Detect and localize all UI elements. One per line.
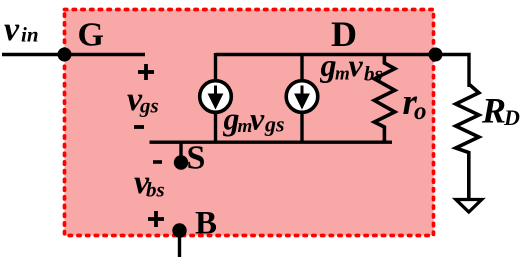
label ro (403, 82, 427, 125)
resistor ro zigzag (374, 56, 395, 142)
plus sign top (vgs +) (138, 64, 154, 80)
current source U1 gm*vgs (200, 81, 232, 113)
wire: B stub (178, 230, 181, 257)
node S dot (174, 155, 188, 169)
wire: top inner rail D (216, 55, 470, 88)
wire: CS1 top lead (214, 53, 217, 81)
svg-text:R: R (481, 91, 506, 131)
wire: S stub (179, 141, 182, 162)
label RD (481, 91, 520, 131)
svg-text:bs: bs (364, 62, 383, 86)
label gm vbs (right of CS2) (320, 47, 383, 86)
node G dot (58, 48, 72, 62)
svg-text:in: in (21, 23, 39, 47)
node D dot (429, 48, 443, 62)
label vgs (127, 81, 159, 118)
svg-text:D: D (503, 105, 520, 130)
wire: vin to G (2, 53, 145, 56)
wire: CS2 top lead (300, 53, 303, 81)
resistor RD zigzag (456, 84, 479, 199)
svg-text:bs: bs (146, 178, 165, 202)
svg-text:v: v (4, 11, 20, 48)
minus sign (vgs -) (134, 125, 144, 129)
label vbs (134, 164, 165, 202)
wire: CS2 bottom lead (300, 112, 303, 143)
minus sign (vbs -) (153, 160, 162, 164)
plus sign bottom (vbs +) (148, 211, 164, 227)
current source U2 gm*vbs (286, 81, 318, 113)
svg-text:G: G (78, 17, 104, 54)
node B dot (172, 223, 186, 237)
svg-text:S: S (187, 140, 206, 177)
label gm vgs (under CS1) (223, 101, 285, 138)
svg-text:o: o (414, 98, 427, 125)
svg-text:gs: gs (264, 112, 285, 137)
svg-text:B: B (195, 206, 217, 242)
wire: CS1 bottom lead (214, 112, 217, 143)
label vin (4, 11, 39, 48)
dashed model box (65, 10, 434, 236)
svg-text:gs: gs (139, 94, 159, 118)
svg-text:v: v (250, 101, 265, 137)
ground (456, 200, 482, 213)
svg-text:D: D (331, 14, 357, 54)
wire: bottom rail (150, 140, 393, 143)
